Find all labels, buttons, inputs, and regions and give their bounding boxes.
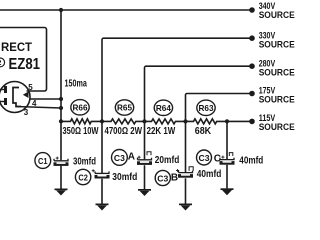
- svg-text:4: 4: [32, 99, 37, 108]
- svg-text:A: A: [128, 151, 135, 162]
- svg-text:C2: C2: [78, 172, 88, 182]
- svg-text:SOURCE: SOURCE: [259, 122, 295, 132]
- svg-text:150ma: 150ma: [65, 79, 88, 90]
- svg-text:C1: C1: [38, 156, 48, 166]
- svg-text:22K 1W: 22K 1W: [147, 126, 176, 137]
- svg-text:30mfd: 30mfd: [112, 172, 137, 183]
- svg-text:68K: 68K: [195, 126, 212, 137]
- svg-text:350Ω 10W: 350Ω 10W: [63, 126, 100, 137]
- svg-text:3: 3: [24, 108, 29, 117]
- svg-text:C3: C3: [199, 153, 210, 163]
- svg-text:R66: R66: [73, 103, 88, 113]
- svg-text:2: 2: [0, 58, 1, 67]
- svg-text:R64: R64: [156, 103, 171, 113]
- svg-text:B: B: [171, 173, 178, 184]
- svg-text:R63: R63: [199, 103, 214, 113]
- svg-text:20mfd: 20mfd: [155, 155, 180, 166]
- svg-text:SOURCE: SOURCE: [259, 39, 295, 49]
- svg-text:C3: C3: [114, 153, 125, 163]
- svg-text:4700Ω 2W: 4700Ω 2W: [105, 126, 143, 137]
- svg-text:SOURCE: SOURCE: [259, 10, 295, 20]
- svg-text:R65: R65: [117, 103, 132, 113]
- svg-text:30mfd: 30mfd: [73, 157, 96, 168]
- svg-text:40mfd: 40mfd: [197, 169, 222, 180]
- svg-text:5: 5: [28, 83, 33, 92]
- svg-text:C3: C3: [157, 173, 168, 183]
- svg-text:SOURCE: SOURCE: [259, 95, 295, 105]
- svg-text:RECT: RECT: [1, 40, 33, 54]
- svg-text:EZ81: EZ81: [9, 56, 41, 73]
- svg-text:C: C: [214, 154, 221, 165]
- svg-text:SOURCE: SOURCE: [259, 67, 295, 77]
- svg-text:40mfd: 40mfd: [239, 156, 263, 167]
